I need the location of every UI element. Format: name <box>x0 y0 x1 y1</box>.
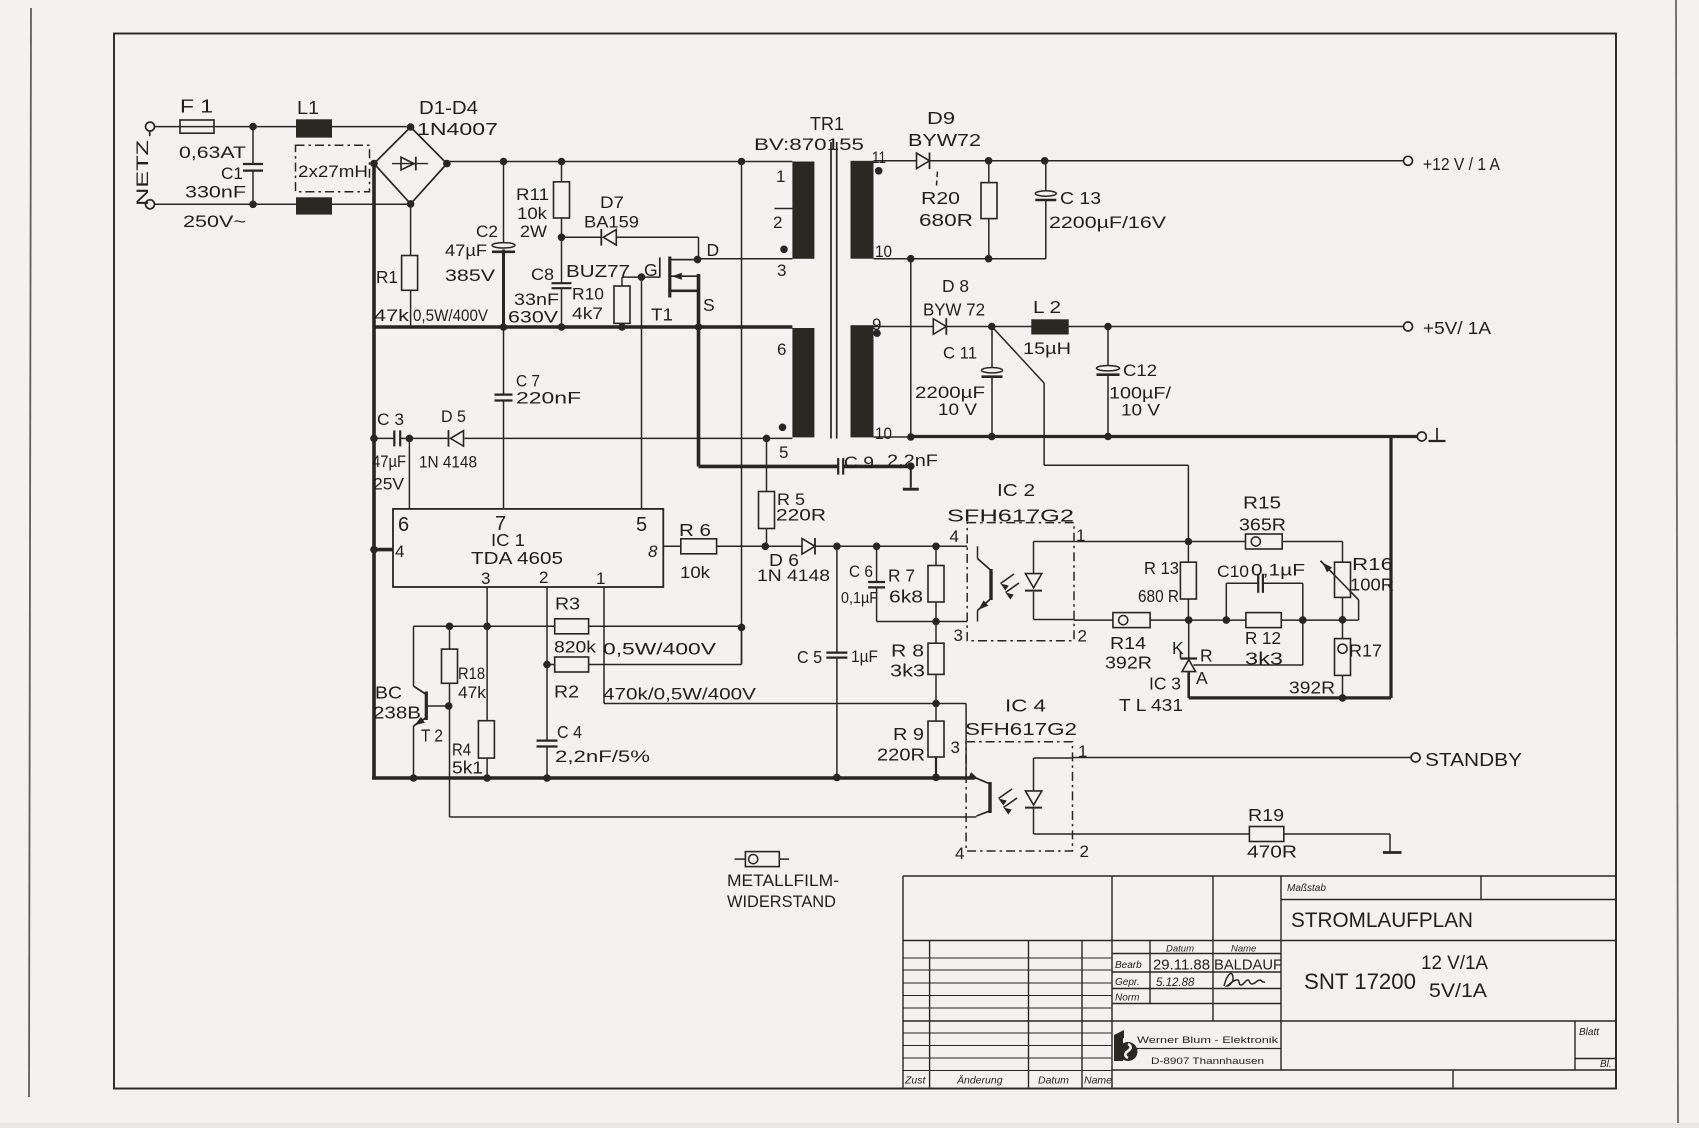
svg-text:BALDAUF: BALDAUF <box>1214 957 1282 974</box>
svg-text:1: 1 <box>1078 742 1087 761</box>
svg-text:470R: 470R <box>1247 842 1297 862</box>
svg-text:Datum: Datum <box>1038 1075 1069 1087</box>
svg-text:33nF: 33nF <box>514 290 559 309</box>
svg-text:680 R: 680 R <box>1138 586 1179 606</box>
svg-text:1: 1 <box>776 167 785 186</box>
svg-text:Datum: Datum <box>1166 944 1194 955</box>
svg-text:IC 3: IC 3 <box>1149 674 1181 694</box>
svg-text:IC 4: IC 4 <box>1005 696 1046 716</box>
svg-text:L1: L1 <box>297 98 319 118</box>
svg-text:2,2nF: 2,2nF <box>887 451 938 470</box>
svg-text:29.11.88: 29.11.88 <box>1153 957 1210 974</box>
svg-text:R2: R2 <box>554 682 579 702</box>
svg-text:R 8: R 8 <box>891 641 924 661</box>
svg-text:1N 4148: 1N 4148 <box>757 566 830 585</box>
svg-text:TDA 4605: TDA 4605 <box>471 548 563 568</box>
svg-text:9: 9 <box>872 315 881 334</box>
svg-text:METALLFILM-: METALLFILM- <box>727 872 839 890</box>
svg-text:1µF: 1µF <box>851 647 878 666</box>
svg-text:R 13: R 13 <box>1144 558 1179 578</box>
svg-text:25V: 25V <box>373 475 405 494</box>
svg-text:Bearb: Bearb <box>1115 960 1142 971</box>
svg-text:2200µF/16V: 2200µF/16V <box>1049 213 1167 232</box>
svg-text:R4: R4 <box>452 740 471 760</box>
svg-text:R 12: R 12 <box>1245 628 1281 648</box>
svg-text:D 5: D 5 <box>441 407 466 426</box>
svg-text:5: 5 <box>779 443 788 462</box>
svg-text:4: 4 <box>395 542 404 561</box>
svg-text:3k3: 3k3 <box>1245 649 1283 669</box>
svg-text:BYW 72: BYW 72 <box>923 300 985 320</box>
svg-text:R 9: R 9 <box>893 724 924 744</box>
svg-text:2: 2 <box>773 213 782 232</box>
svg-text:SNT 17200: SNT 17200 <box>1304 969 1416 994</box>
svg-text:Zust: Zust <box>904 1075 927 1087</box>
svg-text:10k: 10k <box>517 204 548 223</box>
svg-text:470k/0,5W/400V: 470k/0,5W/400V <box>603 685 757 704</box>
svg-text:10k: 10k <box>680 563 711 582</box>
svg-text:0,1µF: 0,1µF <box>1251 561 1305 580</box>
svg-text:47k: 47k <box>458 683 486 702</box>
svg-text:365R: 365R <box>1239 515 1286 535</box>
svg-text:C2: C2 <box>476 222 498 241</box>
svg-text:STROMLAUFPLAN: STROMLAUFPLAN <box>1291 908 1473 932</box>
svg-text:680R: 680R <box>919 210 973 230</box>
svg-text:Norm: Norm <box>1115 993 1139 1004</box>
svg-text:11: 11 <box>872 148 886 167</box>
svg-text:R10: R10 <box>572 285 604 304</box>
svg-text:C8: C8 <box>531 265 554 284</box>
svg-text:IC 2: IC 2 <box>997 480 1035 500</box>
svg-text:630V: 630V <box>508 308 559 327</box>
svg-text:3: 3 <box>951 738 960 757</box>
svg-text:6: 6 <box>777 340 786 359</box>
svg-text:4: 4 <box>955 844 964 863</box>
svg-text:Werner Blum - Elektronik: Werner Blum - Elektronik <box>1137 1035 1278 1046</box>
svg-text:D-8907 Thannhausen: D-8907 Thannhausen <box>1151 1056 1264 1067</box>
svg-text:220nF: 220nF <box>516 389 581 408</box>
svg-text:820k: 820k <box>554 638 597 657</box>
svg-text:T L 431: T L 431 <box>1119 695 1183 715</box>
svg-text:1: 1 <box>1076 526 1085 545</box>
svg-text:2: 2 <box>1080 842 1089 861</box>
svg-text:8: 8 <box>648 542 658 561</box>
svg-text:0,5W/400V: 0,5W/400V <box>413 306 489 325</box>
svg-text:12 V/1A: 12 V/1A <box>1421 953 1488 974</box>
svg-text:2,2nF/5%: 2,2nF/5% <box>555 747 650 766</box>
svg-text:C 3: C 3 <box>377 410 404 429</box>
svg-text:R15: R15 <box>1243 493 1281 513</box>
svg-text:47µF: 47µF <box>372 452 406 471</box>
svg-text:392R: 392R <box>1105 653 1152 673</box>
svg-text:L 2: L 2 <box>1033 297 1061 317</box>
svg-text:4: 4 <box>950 527 959 546</box>
svg-text:STANDBY: STANDBY <box>1425 749 1522 770</box>
svg-text:2W: 2W <box>520 222 547 241</box>
svg-text:100R: 100R <box>1350 575 1394 595</box>
svg-text:+12 V / 1 A: +12 V / 1 A <box>1423 154 1500 174</box>
svg-text:Änderung: Änderung <box>956 1075 1003 1087</box>
svg-text:5: 5 <box>636 514 647 536</box>
svg-text:R19: R19 <box>1248 805 1284 825</box>
svg-text:2: 2 <box>539 568 548 587</box>
svg-text:10 V: 10 V <box>938 400 978 419</box>
svg-text:6k8: 6k8 <box>889 587 923 607</box>
svg-text:Bl.: Bl. <box>1600 1059 1612 1070</box>
svg-text:T 2: T 2 <box>421 726 443 746</box>
svg-text:R20: R20 <box>921 188 960 208</box>
svg-text:0,63AT: 0,63AT <box>179 143 246 162</box>
svg-text:D: D <box>707 240 720 260</box>
svg-text:5.12.88: 5.12.88 <box>1156 977 1195 989</box>
svg-text:392R: 392R <box>1289 678 1335 698</box>
svg-text:BV:870155: BV:870155 <box>754 135 864 154</box>
svg-text:R18: R18 <box>458 664 485 683</box>
svg-text:R16: R16 <box>1352 554 1393 574</box>
svg-text:220R: 220R <box>776 506 826 525</box>
svg-text:F 1: F 1 <box>180 97 213 117</box>
svg-text:NETZ: NETZ <box>134 140 152 206</box>
svg-text:6: 6 <box>398 514 409 536</box>
svg-text:Blatt: Blatt <box>1579 1027 1600 1038</box>
svg-text:Maßstab: Maßstab <box>1287 883 1326 894</box>
svg-text:47µF: 47µF <box>445 241 487 260</box>
svg-text:WIDERSTAND: WIDERSTAND <box>727 893 836 911</box>
svg-text:C 6: C 6 <box>849 562 873 581</box>
svg-text:0,1µF: 0,1µF <box>841 590 878 607</box>
svg-text:C 9: C 9 <box>844 453 874 472</box>
svg-text:C 4: C 4 <box>557 722 582 742</box>
svg-text:Name: Name <box>1231 944 1256 955</box>
svg-text:C1: C1 <box>221 164 243 183</box>
svg-text:3: 3 <box>777 261 786 280</box>
svg-text:D 8: D 8 <box>942 276 969 296</box>
svg-text:R 7: R 7 <box>888 566 915 586</box>
svg-text:1N 4148: 1N 4148 <box>419 453 477 472</box>
svg-text:2x27mH: 2x27mH <box>298 163 368 181</box>
svg-text:C 5: C 5 <box>797 647 822 667</box>
svg-text:R 6: R 6 <box>679 520 711 540</box>
svg-text:D7: D7 <box>600 193 624 212</box>
svg-text:250V~: 250V~ <box>183 212 246 231</box>
svg-text:10: 10 <box>875 424 892 443</box>
svg-text:0,5W/400V: 0,5W/400V <box>603 640 717 659</box>
svg-text:220R: 220R <box>877 745 925 765</box>
svg-text:SFH617G2: SFH617G2 <box>965 719 1077 739</box>
svg-text:C10: C10 <box>1217 562 1249 581</box>
svg-text:R17: R17 <box>1349 641 1382 661</box>
svg-text:BA159: BA159 <box>584 213 639 232</box>
svg-text:TR1: TR1 <box>810 114 844 134</box>
svg-text:330nF: 330nF <box>185 183 246 202</box>
svg-text:Name: Name <box>1084 1075 1112 1087</box>
svg-text:1N4007: 1N4007 <box>417 119 498 139</box>
svg-text:5V/1A: 5V/1A <box>1429 981 1487 1002</box>
svg-text:10 V: 10 V <box>1121 401 1161 420</box>
svg-text:R14: R14 <box>1110 633 1146 653</box>
svg-text:BC: BC <box>375 683 402 703</box>
svg-text:15µH: 15µH <box>1023 339 1071 358</box>
svg-text:1: 1 <box>596 569 605 588</box>
svg-text:7: 7 <box>495 513 506 535</box>
svg-text:SFH617G2: SFH617G2 <box>947 506 1074 526</box>
svg-text:C 13: C 13 <box>1060 188 1101 208</box>
svg-text:G: G <box>644 260 658 280</box>
svg-text:C12: C12 <box>1123 361 1157 380</box>
svg-text:A: A <box>1196 668 1208 688</box>
svg-text:R3: R3 <box>555 594 580 614</box>
svg-text:47k: 47k <box>374 306 410 325</box>
svg-text:10: 10 <box>875 242 892 261</box>
svg-text:K: K <box>1172 638 1184 658</box>
svg-text:BYW72: BYW72 <box>908 130 981 150</box>
svg-text:3: 3 <box>954 626 963 645</box>
svg-text:D9: D9 <box>927 108 955 128</box>
svg-text:BUZ77: BUZ77 <box>566 261 630 281</box>
svg-text:+5V/ 1A: +5V/ 1A <box>1423 318 1491 338</box>
svg-text:S: S <box>703 295 715 315</box>
svg-text:2: 2 <box>1078 627 1087 646</box>
svg-text:3k3: 3k3 <box>890 661 925 681</box>
svg-text:238B: 238B <box>373 703 421 723</box>
svg-text:D1-D4: D1-D4 <box>419 98 478 118</box>
svg-text:R1: R1 <box>376 267 398 287</box>
svg-text:4k7: 4k7 <box>572 304 603 323</box>
svg-text:T1: T1 <box>651 305 673 325</box>
svg-text:R11: R11 <box>516 185 549 204</box>
svg-text:5k1: 5k1 <box>452 758 483 778</box>
svg-text:Gepr.: Gepr. <box>1115 977 1140 988</box>
svg-text:C 11: C 11 <box>943 344 977 363</box>
svg-text:3: 3 <box>481 569 490 588</box>
svg-text:385V: 385V <box>445 266 496 285</box>
svg-text:R: R <box>1200 646 1213 666</box>
